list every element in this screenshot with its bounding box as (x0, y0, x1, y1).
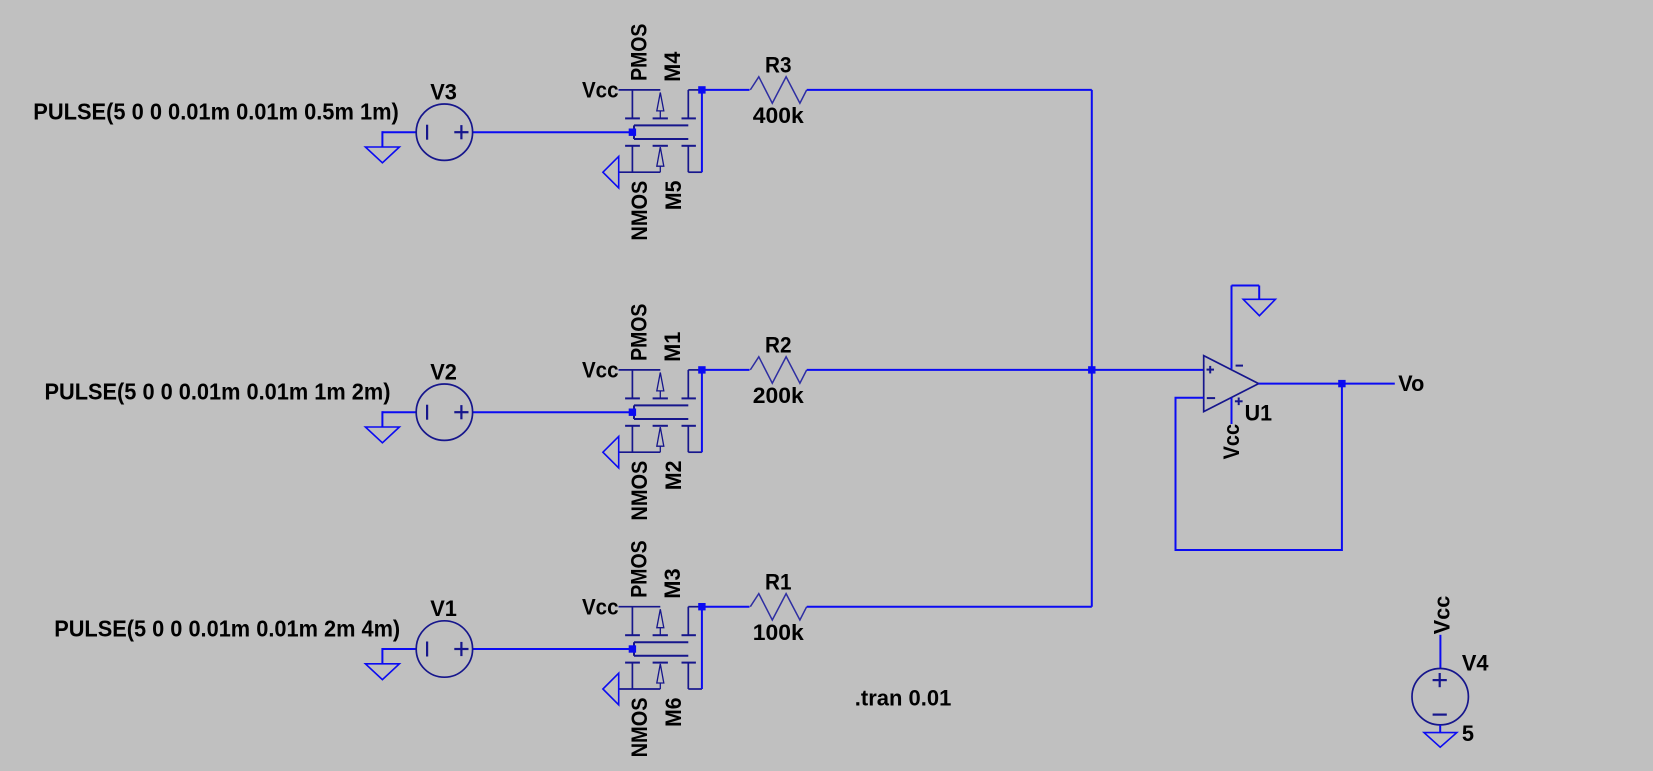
wire drain bus of M1/M2 (701, 370, 703, 452)
svg-text:M2: M2 (661, 461, 686, 491)
wire U1 output (1259, 383, 1395, 385)
label Vo (1398, 371, 1424, 396)
label U1 (1245, 401, 1272, 426)
voltage source V4 (1412, 669, 1468, 725)
ground (M2 source) (603, 436, 619, 468)
svg-text:100k: 100k (753, 620, 805, 645)
wire U1 top power pin (1231, 285, 1233, 369)
svg-text:Vcc: Vcc (1430, 596, 1455, 635)
ground (V1 negative terminal) (365, 648, 416, 680)
label V1 (430, 596, 457, 621)
wire V1+ to gate node (473, 648, 633, 650)
transistor M6 (NMOS) (619, 656, 702, 689)
label R3 (765, 53, 792, 78)
wire feedback loop (1176, 384, 1342, 550)
label NMOS (M5) (627, 181, 652, 241)
wire R3 to bus (807, 89, 1092, 91)
node output (1338, 380, 1345, 387)
value label PULSE of V2 (45, 379, 391, 405)
svg-text:.tran 0.01: .tran 0.01 (855, 686, 952, 711)
label PMOS (M3) (626, 540, 651, 597)
wire node to R3 (702, 89, 750, 91)
node gate input of M3/M6 (629, 645, 636, 652)
label PMOS (M1) (626, 304, 651, 361)
label Vcc rail of M3 (582, 595, 619, 620)
svg-text:200k: 200k (753, 383, 805, 408)
svg-text:M6: M6 (661, 697, 686, 727)
svg-text:M5: M5 (661, 181, 686, 211)
node summing junction (1088, 366, 1095, 373)
wire R1 to bus (807, 606, 1092, 608)
op-amp U1 (1204, 356, 1259, 412)
wire to top ground (1232, 286, 1260, 300)
svg-text:U1: U1 (1245, 401, 1272, 426)
label M3 designator (660, 568, 685, 598)
transistor M4 (PMOS) (619, 90, 702, 139)
label R2 (765, 333, 792, 358)
svg-text:M1: M1 (660, 332, 685, 362)
ground (M5 source) (603, 156, 619, 188)
label NMOS (M6) (627, 697, 652, 757)
value label PULSE of V1 (54, 615, 400, 641)
svg-text:R3: R3 (765, 53, 792, 78)
label V3 (430, 79, 457, 104)
svg-text:M4: M4 (660, 52, 685, 82)
label V2 (430, 359, 457, 384)
label M1 designator (660, 332, 685, 362)
svg-text:PMOS: PMOS (626, 304, 651, 361)
wire V2+ to gate node (473, 411, 633, 413)
value label 100k (R1) (753, 620, 805, 645)
node drain output of M4/M5 (698, 86, 705, 93)
svg-text:400k: 400k (753, 103, 805, 128)
svg-text:PULSE(5 0 0 0.01m 0.01m 2m 4m): PULSE(5 0 0 0.01m 0.01m 2m 4m) (54, 615, 400, 641)
label Vcc rail of M1 (582, 358, 619, 383)
label PMOS (M4) (626, 24, 651, 81)
voltage source V2 (PULSE) (416, 384, 472, 440)
transistor M2 (NMOS) (619, 419, 702, 452)
transistor M1 (PMOS) (619, 370, 702, 419)
svg-text:Vcc: Vcc (1219, 424, 1244, 460)
value label 5 (V4) (1462, 721, 1474, 746)
label M5 designator (661, 181, 686, 211)
svg-text:R2: R2 (765, 333, 792, 358)
node gate input of M4/M5 (629, 129, 636, 136)
wire node to R1 (702, 606, 750, 608)
svg-text:Vcc: Vcc (582, 78, 619, 103)
svg-text:V4: V4 (1462, 650, 1489, 675)
wire drain bus of M3/M6 (701, 607, 703, 689)
svg-text:NMOS: NMOS (627, 461, 652, 521)
svg-text:V2: V2 (430, 359, 457, 384)
svg-text:PULSE(5 0 0 0.01m 0.01m 1m 2m): PULSE(5 0 0 0.01m 0.01m 1m 2m) (45, 379, 391, 405)
svg-text:V1: V1 (430, 596, 457, 621)
svg-text:NMOS: NMOS (627, 697, 652, 757)
value label 200k (R2) (753, 383, 805, 408)
svg-text:V3: V3 (430, 79, 457, 104)
node drain output of M1/M2 (698, 366, 705, 373)
svg-text:M3: M3 (660, 568, 685, 598)
wire V3+ to gate node (473, 131, 633, 133)
value label PULSE of V3 (33, 99, 399, 125)
ground (V4 negative) (1424, 725, 1457, 747)
ground (M6 source) (603, 673, 619, 705)
transistor M5 (NMOS) (619, 139, 702, 172)
svg-text:5: 5 (1462, 721, 1474, 746)
wire Vcc to V4 (1439, 635, 1441, 669)
transistor M3 (PMOS) (619, 607, 702, 656)
svg-text:PMOS: PMOS (626, 540, 651, 597)
svg-text:Vcc: Vcc (582, 358, 619, 383)
label NMOS (M2) (627, 461, 652, 521)
value label 400k (R3) (753, 103, 805, 128)
node drain output of M3/M6 (698, 603, 705, 610)
svg-text:NMOS: NMOS (627, 181, 652, 241)
svg-text:Vcc: Vcc (582, 595, 619, 620)
label R1 (765, 569, 792, 594)
wire node to R2 (702, 369, 750, 371)
resistor R3 (750, 77, 806, 103)
resistor R1 (750, 594, 806, 620)
wire U1 bottom power pin (1231, 398, 1233, 424)
wire drain bus of M4/M5 (701, 90, 703, 172)
svg-text:PULSE(5 0 0 0.01m 0.01m 0.5m 1: PULSE(5 0 0 0.01m 0.01m 0.5m 1m) (33, 99, 399, 125)
resistor R2 (750, 357, 806, 383)
directive .tran 0.01 (855, 686, 952, 711)
voltage source V1 (PULSE) (416, 621, 472, 677)
label M4 designator (660, 52, 685, 82)
node gate input of M1/M2 (629, 409, 636, 416)
label Vcc (V4) (1430, 596, 1455, 635)
label Vcc (U1 bottom supply) (1219, 424, 1244, 460)
label Vcc rail of M4 (582, 78, 619, 103)
svg-text:R1: R1 (765, 569, 792, 594)
voltage source V3 (PULSE) (416, 104, 472, 160)
label V4 (1462, 650, 1489, 675)
label M6 designator (661, 697, 686, 727)
ground (V2 negative terminal) (365, 411, 416, 443)
wire R2 to op-amp noninverting input (807, 369, 1204, 371)
svg-text:PMOS: PMOS (626, 24, 651, 81)
ground (U1 top supply) (1243, 299, 1275, 315)
ground (V3 negative terminal) (365, 131, 416, 163)
label M2 designator (661, 461, 686, 491)
svg-text:Vo: Vo (1398, 371, 1424, 396)
wire vertical bus (1091, 90, 1093, 607)
